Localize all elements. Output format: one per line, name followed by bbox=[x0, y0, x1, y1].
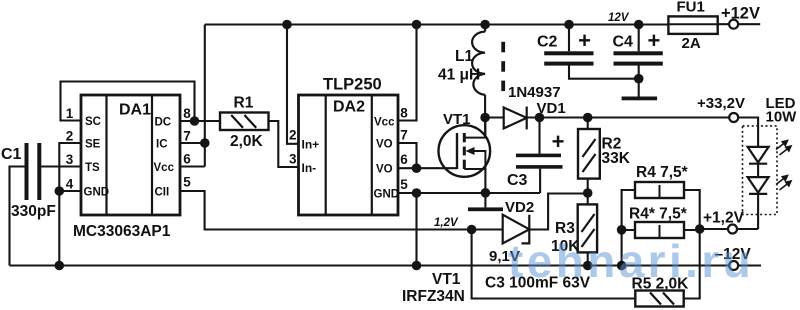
node R3 ground junction bbox=[583, 261, 593, 271]
wire C4 branch to ground bar bbox=[638, 25, 640, 97]
svg-text:+: + bbox=[647, 28, 660, 53]
svg-text:Vcc: Vcc bbox=[154, 162, 175, 174]
IC DA2 TLP250 body bbox=[299, 95, 399, 215]
wire DA2 pin2 In+ to +12V rail bbox=[287, 25, 299, 144]
wire VT1 source to rail and ground bar bbox=[484, 169, 486, 207]
svg-text:VO: VO bbox=[376, 139, 393, 151]
wire DA2 pin8 Vcc to +12V rail bbox=[398, 25, 417, 121]
resistor R1 bbox=[220, 113, 269, 131]
wire DA2 pin7 VO to pin6 VO and gate VT1 bbox=[398, 143, 457, 168]
svg-text:FU1: FU1 bbox=[677, 0, 705, 16]
transistor VT1 arrow bbox=[466, 147, 475, 155]
svg-text:C1: C1 bbox=[1, 146, 22, 163]
svg-text:+: + bbox=[552, 129, 565, 154]
wire L1 top / VT1 drain bbox=[484, 25, 486, 138]
svg-text:VO: VO bbox=[376, 164, 393, 176]
svg-text:4: 4 bbox=[66, 177, 74, 192]
svg-text:2: 2 bbox=[289, 128, 297, 143]
wire DA1 pin1 SC loop to pin8 bbox=[61, 82, 195, 122]
wire DA2 pin5 GND rail to C3 bottom bbox=[398, 193, 540, 266]
wire VD2 cathode to R2/R3 junction bbox=[529, 194, 587, 230]
terminal +12V bbox=[729, 20, 738, 29]
svg-text:DA1: DA1 bbox=[119, 102, 151, 119]
svg-text:VD1: VD1 bbox=[537, 100, 566, 117]
fuse FU1 bbox=[668, 16, 717, 34]
svg-text:C2: C2 bbox=[537, 34, 558, 51]
svg-text:C4: C4 bbox=[613, 34, 634, 51]
svg-text:GND: GND bbox=[84, 187, 110, 199]
svg-text:TLP250: TLP250 bbox=[323, 76, 382, 94]
resistor R2 33K bbox=[578, 129, 600, 179]
svg-text:2,0K: 2,0K bbox=[230, 133, 264, 150]
node 1,2V branch junction bbox=[467, 225, 477, 235]
wire top +12V rail bbox=[205, 23, 669, 25]
terminal -12V bbox=[729, 261, 738, 270]
svg-text:DC: DC bbox=[155, 117, 172, 129]
svg-text:VD2: VD2 bbox=[505, 199, 534, 216]
wire 1,2V node to R5 left bbox=[472, 230, 636, 299]
LED 1 bbox=[748, 147, 769, 164]
svg-text:DA2: DA2 bbox=[333, 99, 365, 116]
ground bar under VT1 source bbox=[468, 207, 503, 211]
svg-text:+12V: +12V bbox=[721, 5, 760, 23]
wire VD1 cathode to +33,2V terminal bbox=[527, 116, 730, 118]
capacitor C1 330pF plates bbox=[25, 143, 42, 200]
svg-text:tehnari.ru: tehnari.ru bbox=[508, 235, 754, 287]
svg-text:MC33063AP1: MC33063AP1 bbox=[73, 223, 171, 240]
terminal +1,2V bbox=[728, 225, 737, 234]
wire C3 bottom branch bbox=[539, 169, 541, 193]
svg-text:7: 7 bbox=[183, 129, 191, 144]
node ground left junction bbox=[55, 261, 65, 271]
wire C2 branch bbox=[569, 25, 639, 79]
svg-text:R1: R1 bbox=[234, 95, 254, 112]
node L1 rail junction bbox=[480, 20, 490, 30]
wire DA1 pin7 stub bbox=[180, 142, 205, 144]
node R4 right junction bbox=[695, 224, 705, 234]
node DA2 Vcc rail junction bbox=[412, 20, 422, 30]
svg-text:SE: SE bbox=[85, 139, 101, 151]
svg-text:In+: In+ bbox=[302, 138, 320, 152]
wire fuse to +12V terminal bbox=[718, 23, 761, 25]
svg-text:33K: 33K bbox=[602, 150, 631, 167]
wire DA1 pin2 SE / pin4 GND to ground bbox=[59, 143, 81, 266]
inductor L1 41uH coil bbox=[472, 32, 485, 95]
svg-text:VT1: VT1 bbox=[432, 271, 461, 288]
LED module dashed box bbox=[743, 126, 778, 215]
wire DA1 pin3 TS to C1 bbox=[10, 167, 82, 266]
capacitor C2 plates bbox=[544, 51, 593, 65]
node DA2 ground rail junction bbox=[412, 261, 422, 271]
node R4* left junction bbox=[617, 225, 627, 235]
node In+ rail junction bbox=[282, 20, 292, 30]
svg-text:8: 8 bbox=[183, 106, 191, 121]
wire R2 bottom bbox=[587, 179, 589, 193]
svg-text:7: 7 bbox=[400, 128, 408, 143]
svg-text:3: 3 bbox=[289, 152, 297, 167]
wire R3 bottom bbox=[587, 252, 589, 265]
wire R5 right to +1,2V node bbox=[684, 229, 700, 299]
wire DA1 pin7/pin6 to +12V rail bbox=[180, 25, 205, 167]
svg-text:330pF: 330pF bbox=[11, 203, 56, 220]
node SE/GND junction bbox=[55, 186, 65, 196]
svg-text:41 μH: 41 μH bbox=[438, 67, 480, 84]
svg-text:SC: SC bbox=[85, 116, 101, 128]
svg-text:5: 5 bbox=[183, 175, 191, 190]
node R2/R3 junction bbox=[583, 188, 593, 198]
svg-text:R4 7,5*: R4 7,5* bbox=[636, 164, 689, 181]
resistor R5 2,0K bbox=[635, 291, 683, 307]
svg-text:Vcc: Vcc bbox=[374, 117, 395, 129]
node C2 rail junction bbox=[564, 20, 574, 30]
node SC/DC junction bbox=[190, 116, 200, 126]
node IC junction bbox=[200, 138, 210, 148]
svg-text:3: 3 bbox=[66, 152, 74, 167]
svg-text:2A: 2A bbox=[682, 35, 701, 52]
svg-text:GND: GND bbox=[374, 189, 400, 201]
svg-text:In-: In- bbox=[302, 161, 317, 175]
wire C3 top branch bbox=[538, 118, 540, 154]
svg-text:C3: C3 bbox=[507, 172, 528, 189]
wire +1,2V line with terminal bbox=[700, 228, 758, 230]
wire LED chain bbox=[757, 164, 759, 229]
svg-text:5: 5 bbox=[400, 177, 408, 192]
node C2/C4 bottom junction bbox=[634, 74, 644, 84]
wire R2 top bbox=[587, 118, 589, 130]
svg-text:CII: CII bbox=[155, 187, 170, 199]
wire VD1 anode bbox=[485, 116, 504, 118]
capacitor C4 plates bbox=[614, 51, 663, 65]
svg-text:10W: 10W bbox=[766, 109, 798, 126]
zener diode VD2 9,1V bbox=[503, 215, 530, 244]
svg-text:1: 1 bbox=[66, 106, 74, 121]
wire R3 top bbox=[587, 193, 589, 204]
svg-text:2: 2 bbox=[66, 129, 74, 144]
LED 2 arrows bbox=[776, 176, 791, 191]
wire DA1 pin5 CII to 1,2V line bbox=[180, 191, 503, 230]
svg-text:IRFZ34N: IRFZ34N bbox=[402, 288, 465, 305]
node VT1 drain junction bbox=[480, 113, 490, 123]
IC DA1 MC33063AP1 body bbox=[81, 95, 180, 215]
transistor VT1 MOSFET bbox=[439, 118, 491, 177]
wire R1 right to DA2 pin3 In- bbox=[269, 121, 299, 167]
node C3 top junction bbox=[535, 113, 545, 123]
svg-text:TS: TS bbox=[85, 162, 100, 174]
LED 1 arrows bbox=[776, 141, 791, 156]
capacitor C3 plates bbox=[516, 154, 563, 169]
svg-text:6: 6 bbox=[183, 152, 191, 167]
node DA2 VO junction bbox=[412, 163, 422, 173]
node C4 rail junction bbox=[634, 20, 644, 30]
svg-text:6: 6 bbox=[400, 152, 408, 167]
node R2 top junction bbox=[583, 113, 593, 123]
wire DA1 pin8 to R1 bbox=[180, 120, 220, 122]
node VT1 source junction bbox=[481, 188, 491, 198]
node R4 rail junction bbox=[617, 261, 627, 271]
svg-text:1,2V: 1,2V bbox=[434, 217, 459, 229]
diode VD1 1N4937 bbox=[504, 107, 527, 130]
svg-text:12V: 12V bbox=[608, 12, 630, 24]
LED 2 bbox=[748, 177, 769, 194]
svg-text:+1,2V: +1,2V bbox=[703, 210, 745, 227]
svg-text:+33,2V: +33,2V bbox=[697, 95, 745, 112]
terminal +33,2V bbox=[729, 113, 738, 122]
svg-text:R4* 7,5*: R4* 7,5* bbox=[629, 206, 688, 223]
svg-text:VT1: VT1 bbox=[443, 111, 471, 128]
svg-text:IC: IC bbox=[156, 139, 168, 151]
inductor L1 core dashes bbox=[501, 42, 505, 91]
ground bar under C4 bbox=[622, 97, 658, 101]
wire +33,2V terminal to LED box bbox=[738, 118, 758, 147]
svg-text:+: + bbox=[578, 28, 591, 53]
resistor R4* bbox=[635, 222, 684, 238]
wire R4/R4* right bbox=[635, 190, 700, 230]
resistor R4 bbox=[635, 182, 684, 198]
wire R4/R4* left to -12V rail bbox=[622, 190, 635, 266]
node DA2 GND junction bbox=[412, 188, 422, 198]
svg-text:1N4937: 1N4937 bbox=[508, 84, 561, 101]
resistor R3 10K bbox=[578, 204, 597, 252]
svg-text:L1: L1 bbox=[455, 48, 473, 65]
wire bottom common rail bbox=[10, 264, 762, 266]
svg-text:8: 8 bbox=[400, 106, 408, 121]
